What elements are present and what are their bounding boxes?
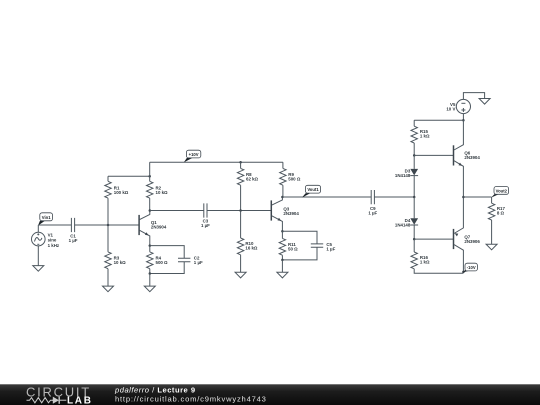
- svg-text:+10V: +10V: [189, 152, 199, 157]
- node flag Vout1: [302, 185, 321, 197]
- svg-text:-10V: -10V: [467, 265, 476, 270]
- node B (R1/R2 top junction): [148, 175, 151, 178]
- svg-text:sine: sine: [48, 238, 57, 243]
- svg-text:500 Ω: 500 Ω: [156, 260, 169, 265]
- node I (Q3 emitter / R11 / C5 top): [281, 230, 284, 233]
- svg-text:2N3904: 2N3904: [464, 155, 480, 160]
- wire node A down to R3: [107, 225, 109, 252]
- node H (Q3 collector / Vout1): [281, 196, 284, 199]
- ground (R11): [277, 272, 288, 278]
- resistor R10: [237, 238, 258, 272]
- footer title text: [114, 386, 267, 404]
- wire node N to Q7 base: [414, 238, 453, 240]
- wire node A up to R1: [107, 198, 109, 225]
- svg-text:1 µF: 1 µF: [194, 260, 203, 265]
- CircuitLab logo: [26, 384, 93, 405]
- capacitor C5: [282, 231, 335, 260]
- svg-text:10 V: 10 V: [446, 106, 455, 111]
- ground (R17): [486, 244, 497, 250]
- svg-text:V1: V1: [48, 232, 54, 237]
- svg-text:100 kΩ: 100 kΩ: [114, 190, 129, 195]
- transistor Q3: [271, 197, 299, 231]
- svg-text:1 µF: 1 µF: [326, 247, 335, 252]
- svg-text:1N4148: 1N4148: [395, 173, 411, 178]
- node C (Q1 collector): [149, 209, 152, 212]
- svg-text:16 kΩ: 16 kΩ: [245, 245, 258, 250]
- wire C9 to diode node: [374, 196, 414, 198]
- node flag Vout2: [491, 187, 508, 198]
- capacitor C1: [69, 218, 78, 243]
- wire rail corner down to node B: [149, 162, 151, 176]
- ground (V5): [479, 99, 490, 105]
- node J (R11 bottom / C5 bottom): [281, 259, 284, 262]
- resistor R2: [147, 176, 169, 210]
- node L (R15 / D3 / Q6 base): [413, 154, 416, 157]
- svg-text:62 kΩ: 62 kΩ: [246, 177, 259, 182]
- source V5: [446, 93, 484, 121]
- svg-text:Vin1: Vin1: [42, 215, 51, 220]
- wire node G down to R10: [240, 211, 242, 239]
- svg-text:10 kΩ: 10 kΩ: [114, 260, 127, 265]
- node M (C9 / D3 / D4): [413, 196, 416, 199]
- node K (V5 / rail / Q6 collector): [462, 119, 465, 122]
- diode D3: [395, 155, 418, 197]
- ground (R3): [103, 286, 114, 292]
- capacitor C2: [150, 246, 203, 274]
- ground (R4): [144, 286, 155, 292]
- svg-text:1 kΩ: 1 kΩ: [420, 134, 430, 139]
- node A (R1/R3/C1 junction): [107, 224, 110, 227]
- wire V1 to C1: [38, 224, 71, 226]
- resistor R9: [280, 162, 301, 197]
- resistor R17: [488, 197, 505, 244]
- resistor R3: [105, 252, 126, 286]
- wire +10V rail: [150, 161, 283, 163]
- wire C1 to base node: [75, 224, 140, 226]
- svg-text:Vout1: Vout1: [307, 187, 319, 192]
- wire Vout1 to C9: [282, 196, 371, 198]
- node E (R4 bottom / C2 bottom): [149, 272, 152, 275]
- node F (rail / R8 top): [239, 161, 242, 164]
- svg-text:http://circuitlab.com/c9mkvwyz: http://circuitlab.com/c9mkvwyzh4743: [115, 394, 267, 403]
- capacitor C3: [201, 203, 210, 228]
- node flag -10V: [463, 263, 478, 272]
- wire R1 top to R2 top: [108, 175, 150, 177]
- wire node L to Q6 base: [414, 154, 453, 156]
- footer bar: [0, 384, 540, 405]
- resistor R15: [411, 120, 430, 155]
- wire node E to ground: [149, 274, 151, 287]
- svg-text:pdalferro / Lecture 9: pdalferro / Lecture 9: [114, 386, 196, 395]
- transistor Q1: [139, 211, 167, 246]
- resistor R1: [105, 176, 129, 198]
- svg-text:1 kHz: 1 kHz: [48, 243, 60, 248]
- source V1: [32, 225, 60, 266]
- resistor R8: [237, 162, 258, 210]
- svg-text:500 Ω: 500 Ω: [288, 177, 301, 182]
- capacitor C9: [368, 190, 377, 216]
- node flag +10V: [184, 150, 201, 162]
- svg-text:8 Ω: 8 Ω: [497, 211, 505, 216]
- svg-text:LAB: LAB: [67, 396, 93, 405]
- resistor R4: [147, 246, 168, 274]
- resistor R16: [411, 239, 463, 273]
- transistor Q6: [454, 120, 481, 197]
- svg-text:10 kΩ: 10 kΩ: [156, 190, 169, 195]
- wire Q1 collector to C3: [150, 210, 204, 212]
- ground (V1): [33, 266, 44, 272]
- node flag Vin1: [38, 213, 53, 226]
- svg-text:2N3904: 2N3904: [283, 211, 299, 216]
- diode D4: [395, 197, 418, 239]
- node N (D4 / R16 / Q7 base): [413, 238, 416, 241]
- svg-text:2N3906: 2N3906: [464, 239, 480, 244]
- node O (Q7 collector / R16 bottom / -10V): [462, 271, 465, 274]
- wire node J to ground: [281, 260, 283, 272]
- svg-text:1 kΩ: 1 kΩ: [420, 259, 430, 264]
- svg-text:1 µF: 1 µF: [69, 238, 78, 243]
- svg-text:2N3904: 2N3904: [151, 224, 167, 229]
- node D (Q1 emitter / R4 / C2 top): [149, 244, 152, 247]
- wire output node to R17: [463, 196, 491, 198]
- node G (R8 bottom / signal wire): [239, 209, 242, 212]
- svg-text:1N4148: 1N4148: [395, 222, 411, 227]
- svg-text:50 Ω: 50 Ω: [288, 247, 298, 252]
- transistor Q7: [454, 197, 481, 272]
- svg-text:Vout2: Vout2: [496, 188, 508, 193]
- svg-text:1 µF: 1 µF: [368, 211, 377, 216]
- wire top rail stage3: [414, 119, 463, 121]
- svg-text:1 µF: 1 µF: [201, 223, 210, 228]
- ground (R10): [235, 272, 246, 278]
- resistor R11: [279, 231, 298, 260]
- wire C3 to Q3 base: [207, 210, 271, 212]
- node P (output node Q6/Q7 emitters): [462, 196, 465, 199]
